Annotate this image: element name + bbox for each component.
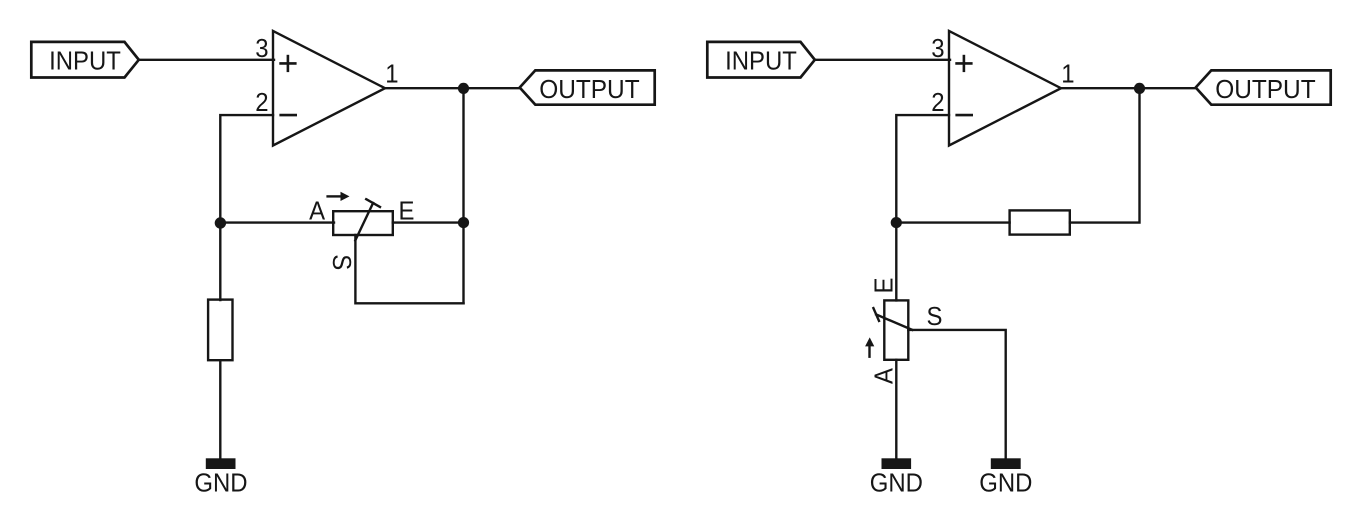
- resistor R1: [208, 300, 232, 361]
- svg-text:E: E: [399, 197, 415, 226]
- potentiometer P2 body: [884, 300, 908, 359]
- wire output node down to feedback resistor: [1070, 88, 1140, 222]
- svg-text:2: 2: [255, 88, 268, 117]
- svg-text:1: 1: [1061, 60, 1074, 89]
- net flag INPUT (right circuit): [707, 42, 815, 78]
- op-amp U1: [273, 31, 385, 146]
- potentiometer P1 direction arrow: [328, 192, 350, 201]
- svg-text:3: 3: [931, 34, 944, 63]
- junction node inverting input (left circuit): [215, 217, 226, 228]
- svg-text:1: 1: [385, 60, 398, 89]
- svg-text:OUTPUT: OUTPUT: [539, 75, 639, 104]
- wire INPUT to op-amp pin 3: [139, 59, 274, 61]
- wire feedback node down to resistor R1: [219, 223, 221, 300]
- wire resistor R2 to feedback node: [896, 221, 1009, 223]
- wire potentiometer E to feedback node: [393, 221, 464, 223]
- potentiometer P1 wiper: [355, 199, 380, 240]
- junction node output (right circuit): [1134, 83, 1145, 94]
- potentiometer P2 wiper: [873, 308, 912, 330]
- resistor R2 (feedback): [1010, 210, 1070, 234]
- net flag OUTPUT (right circuit): [1196, 70, 1331, 104]
- wire resistor R1 to ground: [219, 360, 221, 459]
- junction node feedback (right circuit): [891, 217, 902, 228]
- wire output node down to wiper loop: [462, 88, 464, 303]
- ground symbol (right circuit, under potentiometer): [882, 458, 912, 469]
- wire op-amp output to OUTPUT flag (right): [1061, 87, 1196, 89]
- ground symbol (right circuit, under wiper): [991, 458, 1021, 469]
- wire feedback node to potentiometer terminal A: [220, 221, 334, 223]
- svg-text:OUTPUT: OUTPUT: [1215, 75, 1315, 104]
- junction node output (left circuit): [458, 83, 469, 94]
- svg-text:S: S: [927, 302, 943, 331]
- svg-text:GND: GND: [194, 469, 247, 498]
- svg-text:INPUT: INPUT: [49, 47, 121, 76]
- svg-text:E: E: [870, 278, 899, 294]
- net flag INPUT (left circuit): [31, 42, 139, 78]
- wire feedback node down to potentiometer E: [895, 223, 897, 301]
- svg-text:INPUT: INPUT: [725, 47, 797, 76]
- svg-text:A: A: [309, 197, 325, 226]
- op-amp U2: [949, 31, 1061, 146]
- svg-text:GND: GND: [979, 469, 1032, 498]
- wire INPUT to op-amp pin 3 (right): [815, 59, 950, 61]
- svg-text:GND: GND: [870, 469, 923, 498]
- svg-text:2: 2: [931, 88, 944, 117]
- wire op-amp output to OUTPUT flag: [385, 87, 520, 89]
- svg-text:S: S: [327, 254, 356, 270]
- potentiometer P1 body: [333, 211, 393, 235]
- wire op-amp pin 2 to feedback node: [220, 115, 273, 223]
- svg-text:3: 3: [255, 34, 268, 63]
- svg-text:A: A: [870, 368, 899, 384]
- potentiometer P2 direction arrow: [865, 337, 874, 356]
- net flag OUTPUT (left circuit): [520, 70, 655, 104]
- wire wiper S loop to output drop: [355, 235, 463, 303]
- wire op-amp pin 2 to feedback node (right): [896, 115, 949, 223]
- wire potentiometer A to ground: [895, 360, 897, 459]
- wire wiper S to second ground: [908, 330, 1005, 459]
- ground symbol (left circuit): [206, 458, 236, 469]
- junction node feedback (left circuit): [458, 217, 469, 228]
